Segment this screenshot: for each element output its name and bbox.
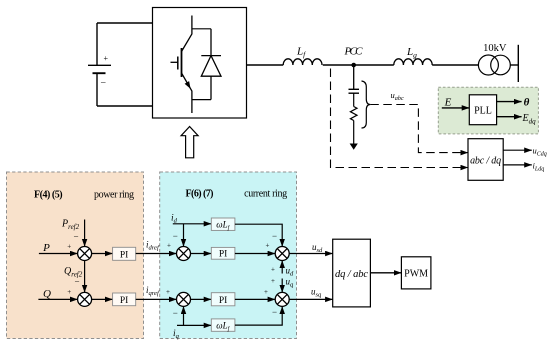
dashed wire current measurement to abc/dq [331, 69, 469, 168]
summing junction current q2 [275, 292, 289, 306]
svg-text:−: − [74, 232, 79, 242]
svg-text:Lg: Lg [406, 46, 417, 59]
svg-text:PI: PI [120, 296, 128, 306]
svg-text:+: + [271, 266, 275, 274]
PI block current q [211, 293, 235, 306]
svg-text:usd: usd [312, 242, 323, 254]
svg-text:iLdq: iLdq [533, 161, 545, 173]
summing junction P [78, 247, 92, 261]
arrow Q into junction [38, 298, 77, 300]
arrow iq branch into junction q1 [183, 306, 185, 325]
svg-text:uabc: uabc [391, 90, 404, 102]
wire transformer to grid bus [510, 64, 518, 66]
diode D1 [201, 29, 221, 100]
grid bus bar [517, 45, 519, 82]
svg-text:−: − [173, 231, 178, 241]
wire junction q2 to dq/abc with usq [289, 298, 333, 300]
svg-text:current ring: current ring [244, 189, 287, 200]
svg-text:F(4) (5): F(4) (5) [34, 190, 63, 201]
power ring enclosure box [7, 172, 144, 339]
arrow uq into junction q2 [281, 279, 283, 293]
wire PI to current ring junction d with idref [136, 253, 177, 255]
wire PCC to capacitor [353, 65, 355, 89]
gate drive arrow (hollow up arrow) [181, 127, 198, 158]
svg-text:power ring: power ring [94, 190, 134, 201]
arrow id to wLf [173, 223, 212, 225]
wire inner top rail [192, 28, 211, 30]
wire Lf to Lg [323, 64, 394, 66]
arrow junction to PI current q [191, 298, 212, 300]
svg-text:+: + [67, 242, 71, 250]
abc/dq transform block [468, 139, 503, 181]
arrow Pref2 into junction [84, 220, 86, 247]
svg-text:F(6) (7): F(6) (7) [186, 189, 214, 200]
wire junction d2 to dq/abc with usd [289, 253, 333, 255]
dq/abc transform block [333, 239, 371, 307]
arrow abc/dq iLdq output [503, 164, 532, 166]
PWM block [401, 257, 431, 289]
arrow Qref2 into junction [84, 261, 86, 293]
brace for uabc measurement [362, 81, 371, 128]
ground [350, 144, 358, 150]
svg-text:+: + [264, 288, 268, 296]
resistor R1 [350, 107, 357, 121]
svg-text:Lf: Lf [296, 46, 306, 59]
wire PI to current ring junction q with iqref [136, 298, 177, 300]
capacitor C1 [349, 89, 360, 93]
svg-text:+: + [104, 54, 109, 63]
svg-text:PCC: PCC [344, 46, 364, 58]
wire inner bottom rail [192, 99, 211, 101]
arrow PLL theta output [497, 101, 522, 103]
wire resistor to ground [353, 121, 355, 145]
svg-text:PI: PI [120, 250, 128, 260]
arrow id branch into junction d [183, 224, 185, 247]
wire inverter output to Lf [247, 64, 284, 66]
PLL block U1 [469, 95, 496, 125]
battery V1 [88, 23, 111, 106]
wire PI to junction d2 [235, 253, 275, 255]
svg-text:usq: usq [311, 287, 322, 299]
svg-text:+: + [271, 277, 275, 285]
arrow dq/abc to PWM [370, 272, 401, 274]
svg-text:+: + [67, 288, 71, 296]
arrow P into junction [39, 253, 78, 255]
arrow E to PLL [442, 107, 470, 109]
svg-text:−: − [272, 231, 277, 241]
wLf block q [211, 319, 235, 331]
wire PI to junction q2 [235, 298, 275, 300]
wire Lg to transformer [432, 64, 478, 66]
svg-text:iqref: iqref [146, 285, 160, 297]
svg-text:P: P [42, 242, 50, 254]
svg-text:E: E [444, 97, 452, 109]
svg-text:+: + [266, 242, 270, 250]
arrow iq to wLf [177, 324, 211, 326]
svg-text:abc / dq: abc / dq [470, 156, 501, 167]
svg-text:10kV: 10kV [483, 43, 507, 54]
svg-text:+: + [167, 242, 171, 250]
wire capacitor to resistor [353, 93, 355, 106]
summing junction Q [78, 292, 92, 306]
svg-text:idref: idref [146, 240, 160, 252]
wire battery bottom to inverter [97, 105, 153, 107]
wire wLf to junction d2 [235, 224, 282, 246]
summing junction current q1 [177, 292, 191, 306]
PI block power d [113, 247, 136, 260]
inductor Lf [283, 59, 322, 65]
dashed wire uabc to abc/dq [370, 105, 468, 153]
wLf block d [211, 218, 235, 230]
PI block current d [211, 247, 235, 259]
arrow junction to PI power d [92, 253, 113, 255]
wire battery top to inverter [97, 22, 153, 24]
svg-text:−: − [173, 308, 178, 318]
inverter box [153, 8, 247, 119]
transistor Q1 (IGBT) [171, 16, 192, 114]
svg-text:PI: PI [219, 296, 227, 306]
arrow ud into junction d2 [281, 261, 283, 274]
svg-text:−: − [75, 277, 80, 287]
node PCC [351, 63, 356, 68]
arrow abc/dq uCdq output [503, 149, 532, 151]
svg-text:uCdq: uCdq [533, 146, 547, 158]
svg-text:+: + [166, 288, 170, 296]
svg-text:–: – [100, 77, 106, 87]
svg-text:dq / abc: dq / abc [335, 269, 368, 280]
summing junction current d1 [177, 247, 191, 261]
PLL enclosure box [438, 87, 538, 134]
arrow junction to PI power q [92, 298, 113, 300]
arrow junction to PI current d [191, 253, 212, 255]
transformer T1 [478, 55, 510, 75]
wire wLf to junction q2 [235, 306, 282, 325]
svg-text:PWM: PWM [404, 268, 428, 279]
svg-text:θ: θ [524, 97, 530, 109]
svg-text:PI: PI [219, 250, 227, 260]
svg-text:Q: Q [43, 288, 51, 300]
PI block power q [113, 293, 136, 306]
inductor Lg [394, 59, 432, 65]
current ring enclosure box [160, 172, 297, 339]
svg-text:PLL: PLL [474, 106, 492, 117]
arrow PLL Edq output [497, 116, 522, 118]
summing junction current d2 [275, 247, 289, 261]
svg-text:−: − [272, 307, 277, 317]
